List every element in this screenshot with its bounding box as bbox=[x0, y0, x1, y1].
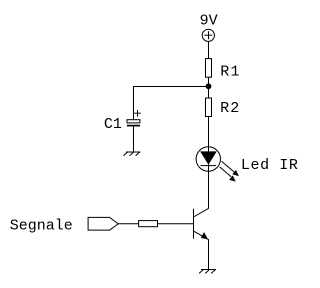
power terminal + (9V supply) bbox=[202, 29, 214, 41]
svg-text:9V: 9V bbox=[200, 13, 218, 30]
wire supply to R1 bbox=[208, 41, 210, 58]
resistor R2 bbox=[206, 98, 212, 117]
wire connector to base resistor bbox=[118, 223, 138, 225]
LED light emission arrows bbox=[220, 161, 239, 181]
ground (emitter) bbox=[199, 270, 216, 274]
base resistor (unlabeled) bbox=[139, 221, 158, 227]
capacitor C1 polarity + bbox=[134, 110, 141, 117]
wire R1 to R2 through junction bbox=[208, 77, 210, 98]
transistor Q1 (NPN) bbox=[194, 208, 209, 239]
svg-text:C1: C1 bbox=[104, 116, 122, 133]
junction node (R1/R2/C1) bbox=[206, 83, 212, 89]
capacitor C1 (electrolytic) bbox=[127, 120, 140, 126]
ground (C1) bbox=[123, 152, 140, 156]
resistor R1 bbox=[206, 59, 212, 78]
svg-text:Segnale: Segnale bbox=[10, 218, 73, 235]
connector tag Segnale bbox=[88, 217, 118, 230]
wire R2 to LED and down to collector bbox=[208, 117, 210, 209]
wire emitter to ground bbox=[208, 239, 210, 269]
svg-text:R2: R2 bbox=[220, 100, 240, 117]
wire base resistor to base bbox=[158, 223, 194, 225]
wire down to C1 top plate bbox=[133, 86, 135, 120]
svg-text:R1: R1 bbox=[220, 64, 240, 81]
LED D1 (Led IR) bbox=[196, 147, 220, 171]
transistor Q1 emitter arrowhead bbox=[201, 233, 207, 240]
wire junction to C1 (horizontal) bbox=[133, 86, 209, 88]
svg-text:Led IR: Led IR bbox=[241, 157, 299, 174]
wire C1 to ground bbox=[133, 126, 135, 152]
